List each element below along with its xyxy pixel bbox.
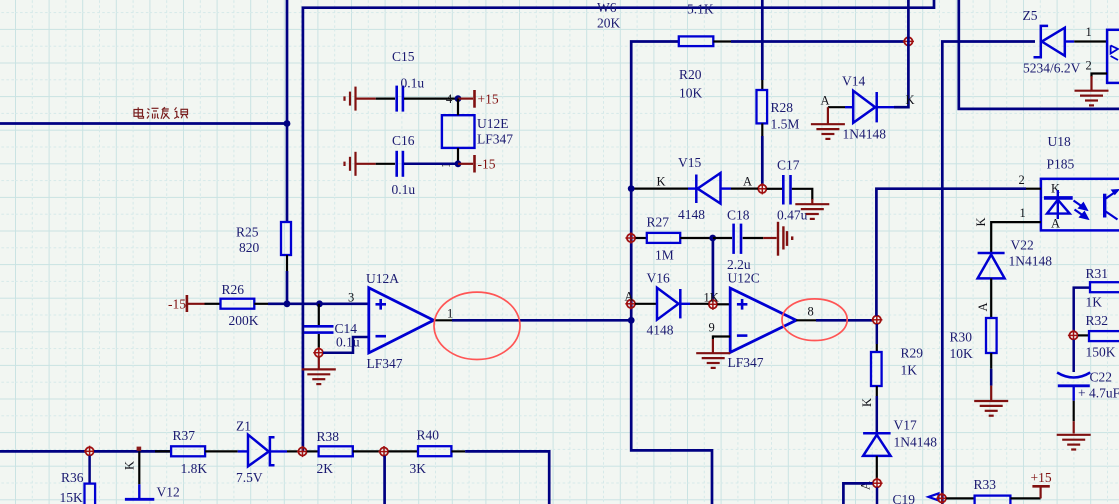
svg-text:2: 2 bbox=[1019, 173, 1025, 187]
wire -15 to R26 bbox=[188, 303, 205, 305]
svg-text:10K: 10K bbox=[679, 86, 703, 101]
svg-text:-15: -15 bbox=[168, 297, 186, 312]
svg-text:8: 8 bbox=[808, 305, 814, 319]
diode glyph at C19 (cut at bottom) bbox=[929, 493, 939, 500]
svg-text:1N4148: 1N4148 bbox=[1009, 254, 1053, 269]
node junction dot at 631.2,188.6 bbox=[628, 185, 635, 192]
resistor R28 bbox=[757, 90, 768, 123]
svg-text:200K: 200K bbox=[229, 313, 259, 328]
svg-text:5.1K: 5.1K bbox=[687, 2, 714, 17]
node red ring junction C19/R33 bbox=[936, 493, 947, 504]
node red ring junction Z1/R38 (x=302.9 net) bbox=[297, 446, 308, 457]
power bar -15 (R26 row) bbox=[186, 295, 189, 312]
wire C15 ground to cap bbox=[356, 97, 376, 99]
svg-text:LF347: LF347 bbox=[728, 355, 764, 370]
svg-text:Z5: Z5 bbox=[1023, 8, 1038, 23]
wire 电流反馈 net horizontal bbox=[0, 122, 287, 125]
svg-text:4: 4 bbox=[446, 92, 453, 106]
svg-text:V15: V15 bbox=[678, 155, 701, 170]
wire U12C output bbox=[796, 319, 816, 321]
svg-text:V14: V14 bbox=[842, 74, 865, 89]
svg-text:Z1: Z1 bbox=[236, 419, 251, 434]
ground earth V14 anode bbox=[827, 107, 829, 124]
svg-text:C16: C16 bbox=[392, 133, 415, 148]
svg-text:V16: V16 bbox=[647, 271, 670, 286]
wire vertical x=958.8 with corner right at y=108.9 bbox=[959, 0, 1119, 109]
capacitor C17 bbox=[782, 175, 785, 205]
svg-text:1K: 1K bbox=[704, 291, 719, 305]
wire R27 to C18 node bbox=[680, 237, 710, 239]
wire top horizontal net W6 bbox=[303, 0, 934, 452]
resistor R40 bbox=[388, 450, 418, 452]
svg-text:R29: R29 bbox=[901, 346, 924, 361]
svg-text:1N4148: 1N4148 bbox=[894, 435, 938, 450]
wire C16 ground to cap bbox=[356, 163, 376, 165]
annotation red ellipse around U12C output bbox=[782, 299, 847, 341]
opto LED glyph inside cut box bbox=[1111, 45, 1118, 53]
svg-text:LF347: LF347 bbox=[367, 356, 403, 371]
svg-text:R28: R28 bbox=[771, 100, 794, 115]
resistor R29 bbox=[871, 352, 882, 386]
resistor R20 bbox=[679, 36, 714, 46]
node junction dot at 631.2,320.3 bbox=[628, 317, 635, 324]
svg-text:2: 2 bbox=[1086, 59, 1092, 73]
svg-text:K: K bbox=[657, 175, 666, 189]
wire x=876.4 up to U18 pin2 row bbox=[876, 189, 1026, 316]
svg-text:4148: 4148 bbox=[678, 207, 705, 222]
node red ring junction R38/R40 bbox=[378, 446, 389, 457]
wire from ring left and down bbox=[843, 483, 872, 504]
svg-text:150K: 150K bbox=[1086, 345, 1116, 360]
ground earth C17 bbox=[811, 199, 813, 204]
op-amp U12E power box bbox=[442, 115, 475, 148]
node junction dot at 319.5,303.8 bbox=[316, 300, 323, 307]
capacitor C16 bbox=[395, 151, 398, 177]
svg-text:1: 1 bbox=[447, 307, 453, 321]
node red ring junction U12C out / R29 bbox=[871, 314, 882, 325]
capacitor C14 bbox=[304, 325, 334, 328]
resistor R37 bbox=[155, 450, 171, 452]
wire U12E top pin bbox=[457, 99, 459, 116]
wire ring down to C22 bbox=[1072, 340, 1075, 372]
svg-text:1.8K: 1.8K bbox=[181, 461, 208, 476]
ground earth U12C pin9 bbox=[696, 353, 730, 368]
wire R33 to +15 bbox=[1010, 497, 1040, 499]
capacitor C14 lead top bbox=[318, 304, 320, 325]
svg-text:R37: R37 bbox=[173, 428, 196, 443]
wire R28 bottom lead bbox=[761, 123, 763, 136]
svg-text:0.1u: 0.1u bbox=[401, 76, 425, 91]
ground earth Z5 box pin2 bbox=[1075, 91, 1109, 106]
svg-text:A: A bbox=[625, 290, 634, 304]
wire V15 row left bbox=[635, 188, 689, 190]
svg-text:7.5V: 7.5V bbox=[236, 470, 263, 485]
svg-text:R31: R31 bbox=[1086, 266, 1109, 281]
ground C16 (rotated bars) bbox=[345, 152, 356, 176]
svg-text:5234/6.2V: 5234/6.2V bbox=[1023, 61, 1081, 76]
wire R29 top lead bbox=[876, 324, 879, 344]
node red ring junction R32 bbox=[1068, 330, 1079, 341]
svg-text:1K: 1K bbox=[901, 363, 918, 378]
node junction dot at 287,123.5 bbox=[284, 120, 291, 127]
wire V17 bottom lead bbox=[876, 456, 878, 479]
wire Z5 to box bbox=[1074, 40, 1107, 42]
component box right of Z5 (cut) bbox=[1107, 30, 1119, 83]
op-amp U12A bbox=[369, 288, 434, 353]
svg-text:A: A bbox=[743, 175, 752, 189]
svg-text:R30: R30 bbox=[950, 330, 973, 345]
svg-text:A: A bbox=[976, 302, 990, 311]
node red ring junction V15 A / C17 bbox=[757, 183, 768, 194]
diode Z1 zener 7.5V bbox=[238, 450, 248, 452]
diode V15 4148 (pointing left) bbox=[695, 175, 698, 204]
node tiny red ring at V12 tap bbox=[137, 447, 142, 451]
wire R36 lead bbox=[88, 456, 91, 484]
wire bottom row from left bbox=[0, 450, 85, 453]
wire ring down to bottom bbox=[383, 456, 386, 504]
wire C18 node down to U12C plus node bbox=[712, 241, 715, 300]
wire V16 to U12C plus bbox=[690, 303, 709, 305]
wire left chain vertical x=631 with corner to R20 bbox=[631, 42, 712, 504]
ground earth R30 bbox=[974, 401, 1008, 416]
svg-text:4148: 4148 bbox=[647, 323, 674, 338]
svg-text:K: K bbox=[860, 398, 874, 407]
U18 phototransistor bbox=[1103, 194, 1106, 218]
svg-text:R20: R20 bbox=[679, 67, 702, 82]
power bar +15 bbox=[458, 97, 473, 99]
svg-text:+15: +15 bbox=[478, 92, 499, 107]
wire U12E bottom pin bbox=[457, 148, 459, 164]
wire R31 corner down chain bbox=[1074, 288, 1090, 331]
svg-text:R40: R40 bbox=[417, 428, 440, 443]
diode V16 4148 bbox=[657, 288, 679, 320]
svg-text:P185: P185 bbox=[1047, 157, 1075, 172]
ground earth C22 bbox=[1057, 435, 1091, 450]
wire ring to V12 tap bbox=[94, 450, 170, 453]
svg-text:W6: W6 bbox=[597, 0, 617, 15]
svg-text:U12A: U12A bbox=[366, 271, 399, 286]
wire vertical x=908.4 V14 K net bbox=[894, 0, 908, 107]
svg-text:1N4148: 1N4148 bbox=[843, 127, 887, 142]
svg-text:K: K bbox=[906, 93, 915, 107]
wire V14 anode lead bbox=[828, 106, 845, 108]
svg-text:V17: V17 bbox=[894, 418, 917, 433]
ground C15 (rotated bars) bbox=[345, 87, 356, 111]
svg-text:R27: R27 bbox=[647, 215, 670, 230]
wire V12 cathode lead bbox=[138, 451, 140, 484]
svg-text:C15: C15 bbox=[392, 49, 415, 64]
node red ring junction C14/ground bbox=[313, 347, 324, 358]
node red ring junction V16/U12C plus bbox=[707, 299, 718, 310]
svg-text:V22: V22 bbox=[1011, 238, 1034, 253]
wire C14 bottom lead bbox=[318, 334, 320, 348]
svg-text:0.1u: 0.1u bbox=[392, 182, 416, 197]
node junction dot at 458,163.8 bbox=[455, 160, 462, 167]
wire ring down to C19 bbox=[876, 487, 879, 504]
wire ring to R33 bbox=[946, 497, 974, 499]
diode V22 1N4148 (pointing up) bbox=[978, 252, 1005, 255]
svg-text:1K: 1K bbox=[1086, 295, 1103, 310]
svg-text:A: A bbox=[821, 94, 830, 108]
svg-text:-15: -15 bbox=[478, 157, 496, 172]
node junction dot at 287,303.8 bbox=[284, 300, 291, 307]
resistor R26 bbox=[221, 299, 255, 309]
wire C15 to +15 node bbox=[404, 97, 458, 99]
resistor R31 (cut at right edge) bbox=[1090, 282, 1119, 292]
optocoupler U18 P185 box bbox=[1041, 179, 1119, 231]
wire C18 to rotated ground bbox=[743, 237, 764, 239]
svg-text:20K: 20K bbox=[597, 16, 621, 31]
svg-text:15K: 15K bbox=[60, 490, 84, 504]
wire R37 to Z1 bbox=[205, 450, 238, 452]
wire vertical into R25 bbox=[286, 0, 289, 222]
svg-text:R32: R32 bbox=[1086, 313, 1109, 328]
svg-text:+15: +15 bbox=[1031, 470, 1052, 485]
diode Z5 zener (pointing left) bbox=[1034, 26, 1049, 57]
svg-text:10K: 10K bbox=[950, 346, 974, 361]
op-amp U12C bbox=[730, 288, 796, 352]
svg-text:C22: C22 bbox=[1090, 370, 1113, 385]
U18 LED symbol bbox=[1057, 190, 1059, 219]
svg-text:3: 3 bbox=[348, 291, 354, 305]
svg-text:K: K bbox=[974, 217, 988, 226]
svg-text:820: 820 bbox=[239, 240, 260, 255]
wire R40 right with corner down bbox=[451, 450, 465, 452]
svg-text:9: 9 bbox=[709, 321, 715, 335]
svg-text:U12E: U12E bbox=[477, 116, 509, 131]
wire C22 to ground bbox=[1072, 386, 1074, 401]
diode V14 1N4148 bbox=[845, 106, 853, 108]
resistor R38 bbox=[307, 450, 319, 452]
node red ring junction R36 bbox=[84, 446, 95, 457]
node red ring junction R27 row bbox=[625, 232, 636, 243]
svg-text:R38: R38 bbox=[317, 429, 340, 444]
svg-text:R33: R33 bbox=[974, 477, 997, 492]
wire R30 to ground bbox=[990, 353, 992, 369]
svg-text:U12C: U12C bbox=[728, 271, 760, 286]
ground earth below C14 bbox=[318, 357, 320, 369]
wire from ring to U12A minus input bbox=[323, 337, 369, 353]
annotation red ellipse around U12A output bbox=[434, 292, 520, 359]
svg-text:+ 4.7uF: + 4.7uF bbox=[1078, 386, 1119, 401]
svg-text:U18: U18 bbox=[1048, 134, 1071, 149]
wire V22 bottom lead bbox=[990, 278, 992, 318]
diode V17 zener 1N4148 (pointing up) bbox=[863, 432, 891, 435]
svg-text:1: 1 bbox=[1086, 25, 1092, 39]
resistor R30 bbox=[986, 318, 997, 353]
svg-text:C19: C19 bbox=[893, 492, 916, 504]
node red ring junction V16 anode on x=631 bbox=[625, 298, 636, 309]
wire R29 to V17 bbox=[876, 386, 878, 396]
svg-text:C18: C18 bbox=[727, 208, 750, 223]
ground C18 (rotated bars tall-left) bbox=[778, 222, 792, 256]
wire U18 pin2 lead bbox=[1026, 188, 1041, 190]
svg-text:R36: R36 bbox=[61, 470, 84, 485]
svg-text:K: K bbox=[123, 461, 137, 470]
wire R25 bottom lead bbox=[286, 255, 288, 271]
wire V15 to ring bbox=[731, 188, 758, 190]
label 电流反馈 (hand-drawn strokes) bbox=[134, 107, 188, 119]
svg-text:LF347: LF347 bbox=[477, 132, 513, 147]
diode V12 (cathode bar, cut at bottom) bbox=[125, 498, 154, 501]
svg-text:1: 1 bbox=[1020, 206, 1026, 220]
svg-text:2K: 2K bbox=[317, 461, 334, 476]
wire Z1 to ring bbox=[287, 450, 299, 452]
wire C16 to -15 node bbox=[404, 163, 458, 166]
svg-text:1M: 1M bbox=[655, 248, 674, 263]
svg-text:1.5M: 1.5M bbox=[771, 117, 800, 132]
wire ring to C17 bbox=[767, 188, 783, 190]
wire R26 to node bbox=[254, 303, 268, 305]
wire vertical x=942.3 full height bbox=[942, 42, 1035, 504]
wire C17 to ground bbox=[792, 189, 813, 200]
U18 light arrows bbox=[1074, 201, 1088, 219]
power bar +15 (R33) bbox=[1039, 487, 1041, 498]
resistor R32 (cut at right edge) bbox=[1078, 334, 1089, 336]
capacitor C18 bbox=[713, 237, 732, 239]
wire U12C minus to ground bbox=[713, 335, 730, 337]
node red ring junction R20/V14K bbox=[903, 36, 914, 47]
resistor R25 bbox=[281, 222, 291, 255]
power bar -15 (U12E) bbox=[458, 163, 473, 165]
wire R38 to ring bbox=[353, 450, 380, 452]
wire U12A output bbox=[434, 319, 452, 321]
svg-text:R26: R26 bbox=[222, 282, 245, 297]
svg-text:V12: V12 bbox=[157, 485, 180, 500]
wire box pin2 to ground bbox=[1092, 74, 1108, 78]
resistor R33 (cut at bottom) bbox=[975, 496, 1011, 504]
resistor R36 (cut at bottom) bbox=[85, 484, 96, 504]
svg-text:3K: 3K bbox=[410, 461, 427, 476]
wire V16 row bbox=[635, 303, 657, 305]
wire vertical x=762.3 (W6 wiper to R28) bbox=[761, 0, 764, 80]
capacitor C15 bbox=[395, 86, 398, 112]
node red ring junction below V17 bbox=[871, 478, 882, 489]
wire R20 to ring junction bbox=[713, 40, 731, 42]
resistor R27 bbox=[636, 237, 647, 239]
svg-text:C17: C17 bbox=[777, 158, 800, 173]
capacitor C22 polarized bbox=[1057, 373, 1090, 378]
node junction dot at 458,98.6 bbox=[455, 95, 462, 102]
node junction dot at 712.7,238 bbox=[709, 235, 716, 242]
svg-text:R25: R25 bbox=[236, 225, 259, 240]
wire U18 pin1 to V22 bbox=[991, 222, 1041, 252]
